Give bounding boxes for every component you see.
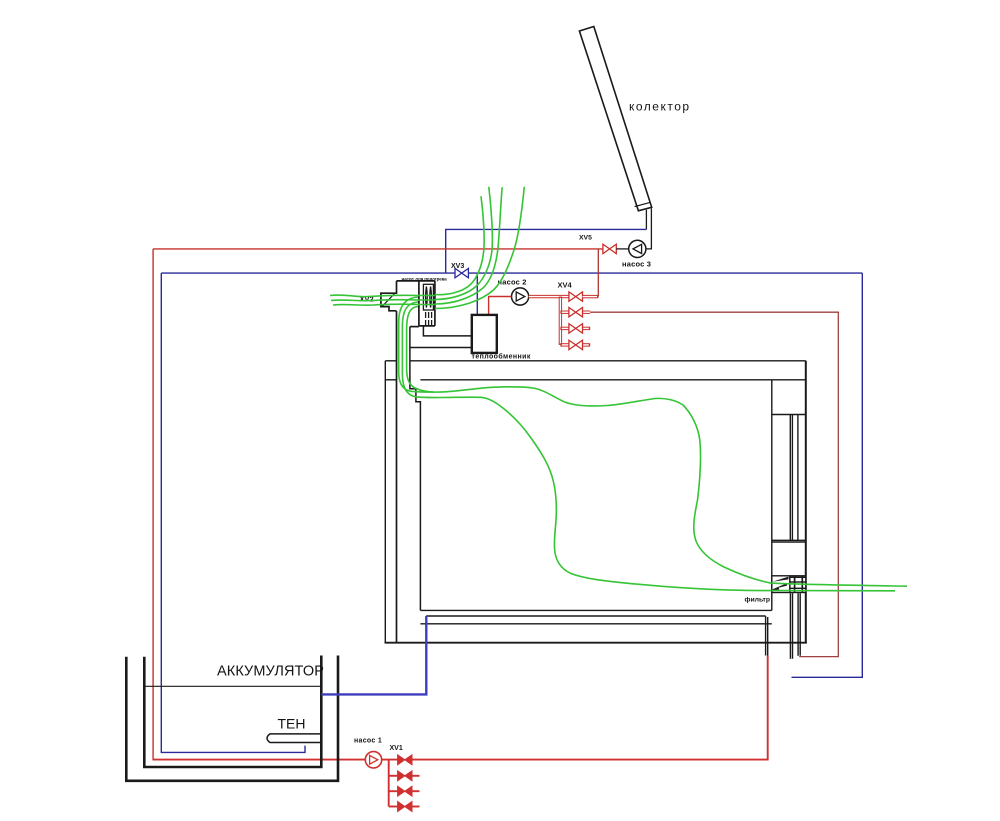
svg-text:теплообменник: теплообменник: [472, 353, 531, 361]
wire red liner inside tank: [152, 758, 154, 761]
pump насос 2: [511, 288, 528, 305]
wire red pump2 to XV4 (double pipe): [529, 295, 569, 298]
svg-text:АККУМУЛЯТОР: АККУМУЛЯТОР: [217, 664, 324, 680]
wire red pump2 to heat exchanger: [489, 297, 512, 315]
XV2 valve slash: [382, 294, 394, 306]
impeller cartridge: [423, 284, 433, 325]
svg-text:фильтр: фильтр: [745, 597, 771, 604]
valve bottom manifold 2: [398, 786, 412, 796]
hose arc 2: [435, 187, 492, 300]
valve XV4: [569, 292, 583, 301]
wire blue long horizontal: [161, 272, 862, 274]
left block outline: [396, 311, 398, 643]
svg-text:XV5: XV5: [579, 235, 592, 242]
svg-text:XV3: XV3: [451, 263, 464, 270]
wire manifold branch 1 stub: [560, 311, 590, 314]
hose pool loop upper: [440, 387, 772, 583]
wire collector to blue line (black): [645, 210, 647, 230]
wire blue liner inside tank: [160, 751, 162, 753]
hose inlet strands left: [330, 295, 435, 297]
wire manifold branch 3 stub: [560, 343, 590, 346]
svg-text:XV4: XV4: [558, 280, 573, 289]
wire red riser XV4 to XV5 line: [597, 249, 599, 297]
wire blue right drop to filter: [792, 273, 863, 677]
duct assembly to heat exchanger: [410, 326, 472, 611]
wire red accumulator bottom outlet: [153, 759, 366, 761]
pool outer right wall: [805, 361, 807, 644]
wire red top horizontal: [153, 248, 603, 250]
wire blue left drop to accumulator: [161, 273, 305, 752]
hose filter outlet lower: [772, 590, 895, 592]
pool basin right wall: [771, 380, 773, 610]
wire red XV4 to riser (double pipe): [583, 295, 599, 298]
hose arc 1: [435, 196, 484, 294]
valve bottom manifold 3: [398, 802, 412, 812]
manifold branch 2: [389, 790, 398, 792]
wire red long line to pool filter: [590, 312, 838, 656]
valve XV5: [603, 244, 616, 253]
XV2 pump block assembly: [381, 281, 435, 643]
hose pool loop lower: [440, 397, 772, 590]
accumulator tank outline: [126, 656, 338, 781]
wire valve XV5 to pump 3 (black): [616, 248, 629, 250]
pool bottom: [385, 642, 807, 644]
collector panel: [579, 27, 651, 211]
wire red main bottom line: [412, 759, 768, 761]
filter pipes down pair 1: [789, 593, 791, 659]
pump насос 1: [365, 752, 381, 768]
svg-text:ТЕН: ТЕН: [278, 716, 306, 732]
hose filter outlet upper: [772, 583, 907, 586]
pump насос 3: [629, 240, 646, 257]
heat exchanger box: [472, 315, 497, 353]
left block bottom: [410, 326, 419, 328]
valve XV3: [455, 268, 468, 277]
green hoses: [330, 187, 907, 591]
heating element TEH: [267, 734, 321, 743]
filter pipes down pair 2: [797, 593, 799, 656]
floor pipe down pair: [765, 616, 767, 656]
manifold branch 3: [389, 806, 398, 808]
valve manifold 1: [569, 308, 583, 317]
manifold branch 1: [389, 775, 398, 777]
pool outer left wall: [384, 361, 386, 643]
wire red left drop to accumulator: [152, 249, 154, 759]
skimmer channel bottom: [772, 539, 806, 541]
filter box: [772, 576, 806, 593]
wire blue accumulator outlet to pool floor: [321, 616, 426, 694]
skimmer head box: [772, 414, 806, 416]
valve manifold 3: [569, 340, 583, 349]
wire blue branch to heat exchanger: [476, 273, 478, 315]
hose down conduit strand 2: [402, 302, 440, 398]
pool rim top line: [385, 361, 807, 659]
svg-text:насос 1: насос 1: [354, 738, 382, 745]
pool rim bottom line: [385, 379, 396, 381]
wire collector to pump 3 (black): [646, 208, 652, 249]
svg-text:насос для подогрева: насос для подогрева: [402, 276, 448, 281]
skimmer channel verticals: [789, 415, 791, 541]
hose down conduit strand 1: [399, 297, 440, 392]
inner divider: [418, 281, 420, 326]
wire red pool return riser: [767, 656, 769, 760]
hose arc 3: [435, 187, 502, 304]
hose arc 4: [435, 187, 524, 309]
wire blue top horizontal: [446, 229, 647, 273]
valve manifold 2: [569, 324, 583, 333]
valve bottom manifold 1: [398, 771, 412, 781]
hose down conduit strand 3: [407, 307, 434, 393]
wire red bottom manifold vertical: [388, 760, 390, 807]
wire red manifold vertical (double pipe): [559, 297, 562, 345]
right edge: [434, 281, 436, 326]
wire manifold branch 2 stub: [560, 327, 590, 330]
svg-text:насос 3: насос 3: [622, 259, 651, 268]
pool floor channel lines: [420, 609, 771, 611]
accumulator water line: [144, 685, 321, 687]
svg-text:колектор: колектор: [629, 100, 691, 114]
svg-text:XV1: XV1: [390, 745, 403, 752]
wire red pump1 to XV1: [382, 759, 398, 761]
valve XV1: [398, 755, 412, 765]
housing bottom: [419, 325, 435, 327]
